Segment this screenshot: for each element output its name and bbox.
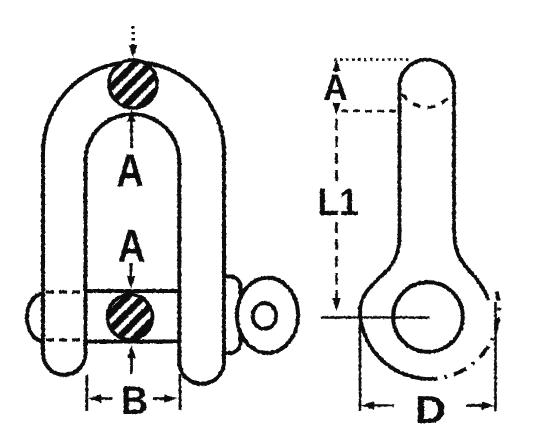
svg-text:A: A (323, 67, 348, 108)
svg-text:D: D (415, 389, 446, 432)
svg-text:L1: L1 (318, 182, 359, 224)
svg-text:A: A (116, 144, 144, 196)
svg-text:B: B (121, 379, 148, 423)
svg-text:A: A (118, 220, 146, 272)
